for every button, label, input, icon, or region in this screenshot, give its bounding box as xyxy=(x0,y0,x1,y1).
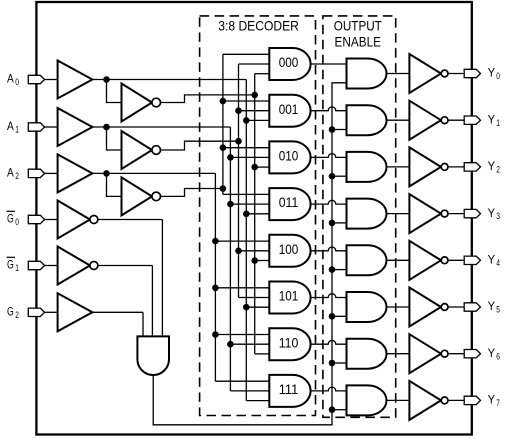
svg-text:010: 010 xyxy=(279,148,299,164)
svg-text:A: A xyxy=(7,166,14,180)
svg-text:ENABLE: ENABLE xyxy=(335,34,382,50)
svg-text:Y: Y xyxy=(488,159,495,173)
svg-text:001: 001 xyxy=(279,101,299,117)
svg-text:G: G xyxy=(7,258,14,272)
svg-text:0: 0 xyxy=(15,77,19,87)
svg-text:A: A xyxy=(7,119,14,133)
svg-text:Y: Y xyxy=(488,346,495,360)
svg-text:2: 2 xyxy=(15,310,19,320)
svg-text:000: 000 xyxy=(279,54,299,70)
svg-text:110: 110 xyxy=(279,334,299,350)
svg-text:Y: Y xyxy=(488,206,495,220)
svg-text:111: 111 xyxy=(279,381,299,397)
svg-text:1: 1 xyxy=(15,263,19,273)
svg-text:Y: Y xyxy=(488,66,495,80)
svg-text:5: 5 xyxy=(496,305,500,315)
svg-text:OUTPUT: OUTPUT xyxy=(334,17,382,33)
svg-text:G: G xyxy=(7,305,14,319)
svg-text:2: 2 xyxy=(15,171,19,181)
svg-text:0: 0 xyxy=(15,217,19,227)
svg-text:3:8 DECODER: 3:8 DECODER xyxy=(218,17,299,33)
svg-text:Y: Y xyxy=(488,299,495,313)
svg-text:0: 0 xyxy=(496,71,500,81)
svg-text:1: 1 xyxy=(15,125,19,135)
svg-text:Y: Y xyxy=(488,393,495,407)
svg-text:1: 1 xyxy=(496,118,500,128)
svg-text:A: A xyxy=(7,72,14,86)
svg-text:Y: Y xyxy=(488,253,495,267)
svg-text:011: 011 xyxy=(279,194,299,210)
svg-text:3: 3 xyxy=(496,211,500,221)
svg-text:101: 101 xyxy=(279,288,299,304)
svg-text:Y: Y xyxy=(488,112,495,126)
svg-text:G: G xyxy=(7,212,14,226)
svg-text:7: 7 xyxy=(496,398,500,408)
svg-text:100: 100 xyxy=(279,241,299,257)
svg-text:4: 4 xyxy=(496,258,500,268)
svg-text:2: 2 xyxy=(496,165,500,175)
svg-text:6: 6 xyxy=(496,351,500,361)
